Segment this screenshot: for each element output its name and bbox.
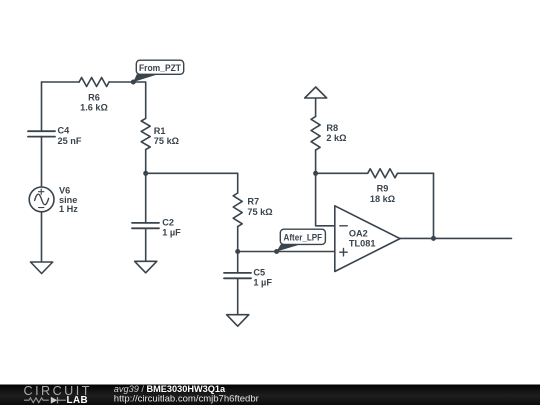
- svg-text:1 µF: 1 µF: [253, 278, 272, 288]
- svg-text:R8: R8: [326, 123, 338, 133]
- svg-text:2 kΩ: 2 kΩ: [326, 133, 346, 143]
- svg-text:R6: R6: [88, 92, 100, 102]
- svg-text:18 kΩ: 18 kΩ: [370, 194, 395, 204]
- svg-text:OA2: OA2: [349, 228, 368, 238]
- svg-text:1.6 kΩ: 1.6 kΩ: [80, 103, 108, 113]
- svg-text:C5: C5: [253, 267, 265, 277]
- svg-text:R9: R9: [377, 183, 389, 193]
- svg-text:After_LPF: After_LPF: [284, 232, 323, 243]
- svg-text:75 kΩ: 75 kΩ: [154, 136, 179, 146]
- svg-text:http://circuitlab.com/cmjb7h6f: http://circuitlab.com/cmjb7h6ftedbr: [114, 393, 259, 403]
- svg-text:C4: C4: [58, 126, 71, 136]
- svg-text:1 Hz: 1 Hz: [59, 204, 78, 214]
- svg-text:avg39 / BME3030HW3Q1a: avg39 / BME3030HW3Q1a: [114, 384, 226, 394]
- svg-text:TL081: TL081: [349, 238, 376, 248]
- svg-text:R1: R1: [154, 126, 166, 136]
- svg-text:From_PZT: From_PZT: [139, 63, 181, 74]
- svg-text:R7: R7: [247, 197, 259, 207]
- svg-text:25 nF: 25 nF: [58, 136, 82, 146]
- svg-text:LAB: LAB: [67, 395, 89, 405]
- svg-text:C2: C2: [162, 217, 174, 227]
- svg-text:1 µF: 1 µF: [162, 228, 181, 238]
- svg-text:75 kΩ: 75 kΩ: [247, 207, 272, 217]
